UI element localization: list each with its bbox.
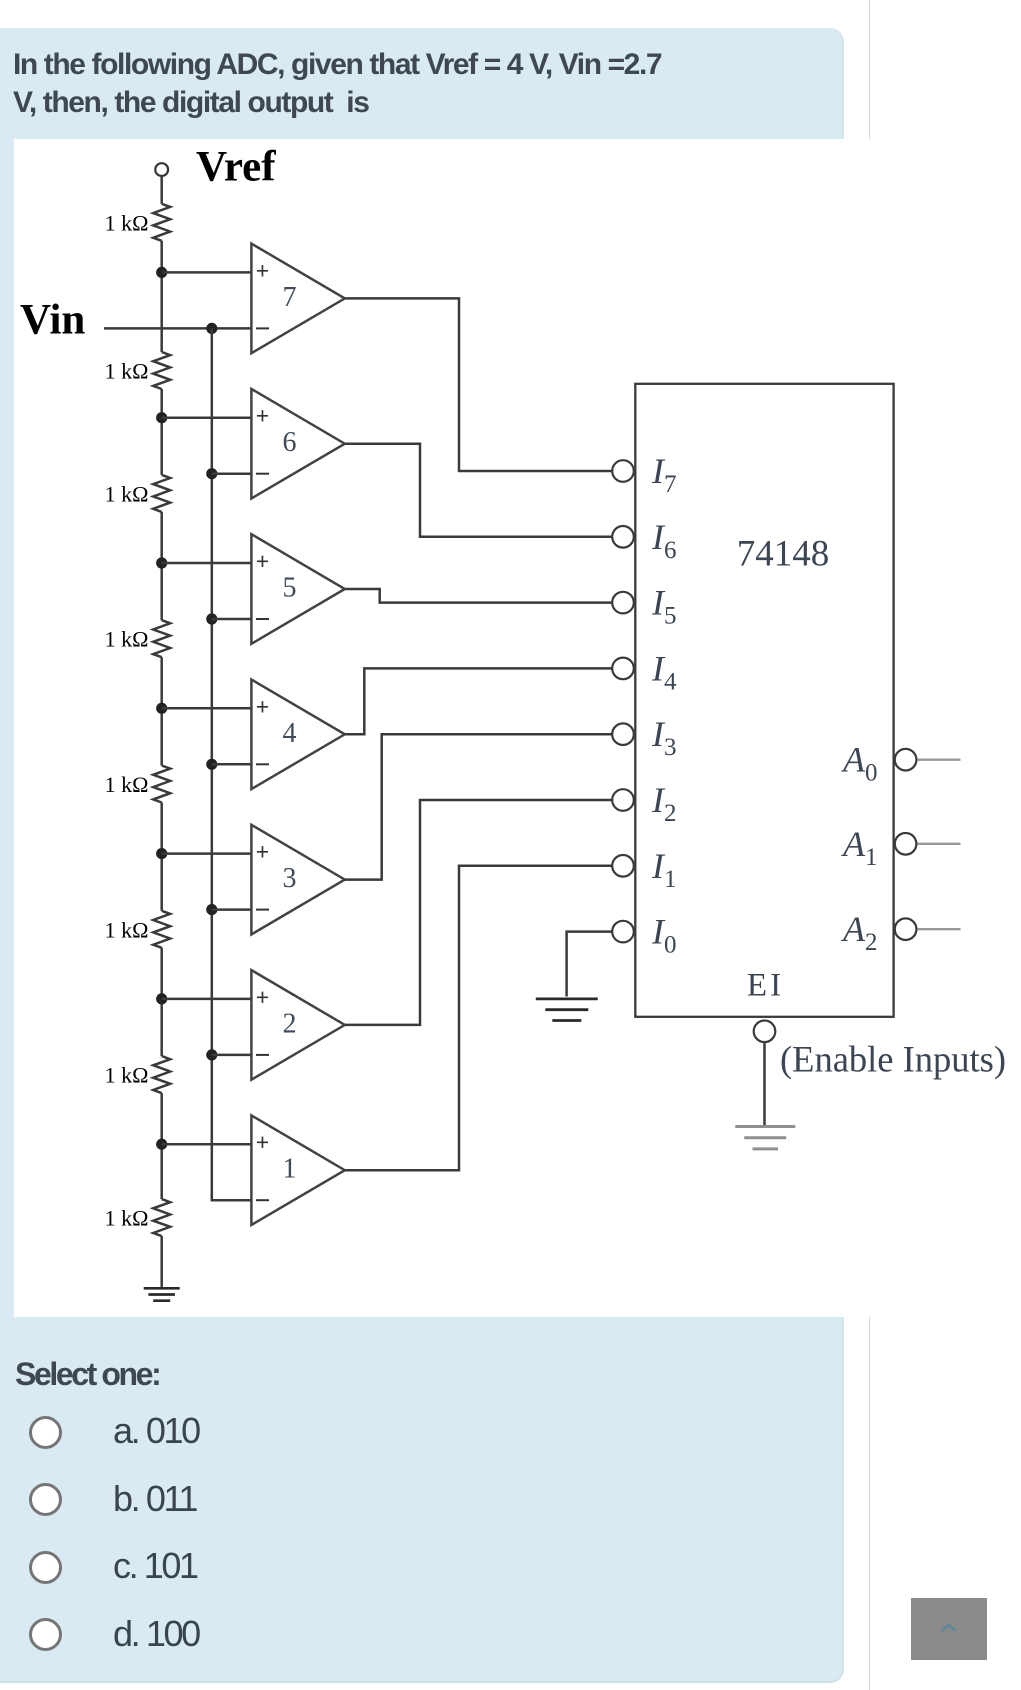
ground (I0) (536, 998, 598, 1001)
svg-text:2: 2 (283, 1008, 297, 1039)
svg-text:1: 1 (283, 1154, 297, 1185)
question text (13, 46, 833, 122)
encoder U1 74148 box (635, 384, 893, 1017)
svg-text:+: + (256, 984, 269, 1010)
resistor R5 (160, 657, 163, 765)
wire N6 to comparator 6 + input (162, 416, 252, 419)
op-amp comparator 2 (251, 970, 344, 1080)
node N7 (ladder tap) (156, 267, 167, 278)
svg-text:1 kΩ: 1 kΩ (105, 359, 149, 384)
pin A0 bubble (895, 749, 917, 771)
svg-text:1 kΩ: 1 kΩ (105, 917, 149, 942)
wire N5 to comparator 5 + input (162, 562, 252, 565)
circuit canvas (white) (14, 139, 1005, 1317)
svg-text:+: + (256, 839, 269, 865)
node N1 (ladder tap) (156, 1139, 167, 1150)
node N4 (ladder tap) (156, 703, 167, 714)
node N6 (ladder tap) (156, 412, 167, 423)
wire bus tap to comparator 6 - input (212, 472, 252, 475)
svg-text:Vref: Vref (196, 144, 276, 191)
svg-text:6: 6 (283, 427, 297, 458)
op-amp comparator 6 (251, 389, 344, 499)
resistor R6 (160, 803, 163, 911)
wire A2 stub (917, 928, 960, 930)
right column divider (869, 0, 871, 1690)
op-amp comparator 1 (251, 1115, 344, 1225)
scroll-top button (911, 1598, 987, 1660)
node bus tap comparator 5 (206, 613, 217, 624)
op-amp comparator 3 (251, 825, 344, 935)
resistor R7 (160, 948, 163, 1056)
pin I2 bubble (612, 789, 634, 811)
resistor R2 (160, 241, 163, 352)
wire N2 to comparator 2 + input (162, 998, 252, 1001)
op-amp comparator 4 (251, 680, 344, 790)
svg-text:+: + (256, 548, 269, 574)
pin I6 bubble (612, 526, 634, 548)
ground (EI) (735, 1125, 795, 1128)
pin I5 bubble (612, 592, 634, 614)
svg-text:7: 7 (283, 282, 297, 313)
wire Vin lead (104, 327, 251, 330)
svg-text:+: + (256, 257, 269, 283)
pin I0 bubble (612, 921, 634, 943)
svg-text:1 kΩ: 1 kΩ (105, 210, 149, 235)
svg-text:(Enable Inputs): (Enable Inputs) (780, 1039, 1006, 1080)
pin I4 bubble (612, 658, 634, 680)
svg-text:1 kΩ: 1 kΩ (105, 481, 149, 506)
label - input (comparator 7) (256, 327, 269, 329)
node bus tap comparator 4 (206, 759, 217, 770)
op-amp comparator 5 (251, 534, 344, 644)
radio option d (29, 1618, 62, 1651)
wire bus tap to comparator 4 - input (212, 763, 252, 766)
svg-text:1 kΩ: 1 kΩ (105, 627, 149, 652)
radio option b (29, 1483, 62, 1516)
svg-text:1 kΩ: 1 kΩ (105, 1063, 149, 1088)
wire comparator 3 output to I3 (345, 734, 612, 879)
wire N4 to comparator 4 + input (162, 707, 252, 710)
svg-text:1 kΩ: 1 kΩ (105, 772, 149, 797)
answer panel prompt "Select one:" (15, 1356, 159, 1393)
Vref terminal (155, 163, 168, 176)
resistor R8 (160, 1093, 163, 1199)
pin A1 bubble (895, 833, 917, 855)
scroll-top chevron (939, 1621, 958, 1634)
node bus tap comparator 6 (206, 468, 217, 479)
label - input (comparator 6) (256, 473, 269, 475)
label - input (comparator 4) (256, 763, 269, 765)
wire bus tap to comparator 5 - input (212, 618, 252, 621)
wire comparator 4 output to I4 (345, 668, 612, 734)
node bus tap comparator 3 (206, 904, 217, 915)
svg-text:3: 3 (283, 863, 297, 894)
wire EI to ground (763, 1043, 766, 1126)
wire N7 to comparator 7 + input (162, 271, 252, 274)
wire comparator 2 output to I2 (345, 800, 612, 1025)
wire N3 to comparator 3 + input (162, 852, 252, 855)
op-amp comparator 7 (251, 244, 344, 354)
resistor R3 (160, 389, 163, 475)
svg-text:1 kΩ: 1 kΩ (105, 1206, 149, 1231)
wire ladder to ground (160, 1236, 163, 1288)
wire comparator 1 output to I1 (345, 866, 612, 1170)
resistor R4 (160, 512, 163, 620)
node N3 (ladder tap) (156, 848, 167, 859)
svg-text:4: 4 (283, 718, 297, 749)
label - input (comparator 5) (256, 618, 269, 620)
wire Vref to R1 (160, 176, 163, 204)
wire bus tap to comparator 3 - input (212, 908, 252, 911)
pin A2 bubble (895, 918, 917, 940)
pin EI bubble (754, 1021, 776, 1043)
resistor R1 (153, 204, 170, 241)
radio option a (29, 1416, 62, 1449)
node N5 (ladder tap) (156, 557, 167, 568)
pin I3 bubble (612, 723, 634, 745)
svg-text:5: 5 (283, 573, 297, 604)
svg-text:+: + (256, 693, 269, 719)
wire I0 to ground (567, 932, 613, 997)
pin I7 bubble (612, 460, 634, 482)
svg-text:Vin: Vin (20, 297, 85, 344)
wire A0 stub (917, 759, 960, 761)
node bus tap comparator 2 (206, 1049, 217, 1060)
pin I1 bubble (612, 855, 634, 877)
wire comparator 7 output to I7 (345, 298, 612, 471)
node Vin junction (206, 323, 217, 334)
wire comparator 6 output to I6 (345, 444, 612, 537)
wire A1 stub (917, 843, 960, 845)
svg-text:74148: 74148 (737, 534, 830, 575)
wire Vin bus (212, 328, 252, 1200)
label - input (comparator 1) (256, 1199, 269, 1201)
wire N1 to comparator 1 + input (162, 1143, 252, 1146)
svg-text:EI: EI (747, 968, 784, 1004)
label - input (comparator 2) (256, 1054, 269, 1056)
node N2 (ladder tap) (156, 993, 167, 1004)
label - input (comparator 3) (256, 909, 269, 911)
svg-text:+: + (256, 1129, 269, 1155)
svg-text:+: + (256, 403, 269, 429)
wire comparator 5 output to I5 (345, 589, 612, 603)
wire bus tap to comparator 2 - input (212, 1054, 252, 1057)
ground (ladder) (144, 1287, 180, 1290)
radio option c (29, 1551, 62, 1584)
